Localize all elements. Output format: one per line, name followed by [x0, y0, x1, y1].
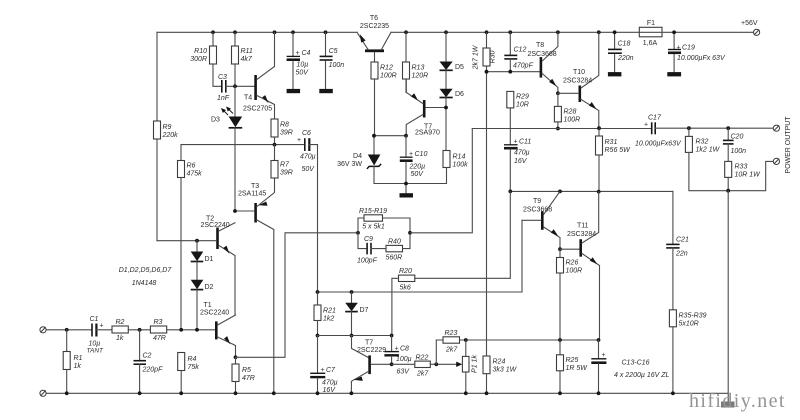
wire D4-C10 node row	[372, 134, 408, 138]
svg-text:C18: C18	[618, 41, 631, 48]
svg-text:C9: C9	[364, 236, 373, 243]
resistor R31	[596, 128, 632, 191]
ground for C10	[400, 193, 414, 197]
svg-text:C21: C21	[676, 237, 689, 244]
svg-text:1,6A: 1,6A	[643, 40, 658, 47]
svg-text:R40: R40	[388, 239, 401, 246]
svg-text:T6: T6	[370, 15, 378, 22]
svg-text:D6: D6	[455, 91, 464, 98]
svg-text:C13-C16: C13-C16	[622, 360, 650, 367]
svg-text:10R 1W: 10R 1W	[735, 172, 762, 179]
svg-text:R20: R20	[399, 268, 412, 275]
wire output node row	[472, 126, 651, 130]
resistor network R15-R19	[356, 208, 410, 235]
svg-text:+: +	[321, 367, 325, 374]
svg-text:75k: 75k	[188, 364, 200, 371]
svg-text:5x10R: 5x10R	[679, 321, 699, 328]
capacitor C21	[666, 191, 689, 309]
capacitor C19	[668, 32, 726, 72]
svg-text:R31: R31	[605, 139, 618, 146]
svg-text:47R: 47R	[242, 375, 255, 382]
svg-text:120R: 120R	[412, 73, 429, 80]
svg-text:220k: 220k	[162, 132, 179, 139]
svg-text:63V: 63V	[397, 369, 411, 376]
svg-text:R1: R1	[74, 355, 83, 362]
capacitor C3	[217, 74, 235, 102]
transistor T1 2SC2240	[200, 302, 236, 357]
svg-text:2SC3284: 2SC3284	[567, 231, 596, 238]
svg-text:100R: 100R	[380, 73, 397, 80]
svg-text:R11: R11	[241, 48, 253, 55]
svg-text:R56 5W: R56 5W	[605, 147, 632, 154]
svg-text:36V 3W: 36V 3W	[337, 161, 362, 168]
capacitor C6	[297, 130, 318, 292]
svg-text:C7: C7	[326, 367, 336, 374]
resistor R1	[63, 328, 82, 395]
svg-text:470pF: 470pF	[513, 63, 534, 70]
svg-text:22n: 22n	[675, 251, 688, 258]
transistor T4 2SC2705	[243, 32, 275, 119]
svg-text:100R: 100R	[566, 268, 583, 275]
svg-text:P1 1k: P1 1k	[472, 355, 479, 373]
svg-text:R32: R32	[696, 139, 709, 146]
svg-text:470µ: 470µ	[322, 380, 338, 387]
junction dot T3 collector at rail	[272, 391, 276, 395]
LED D3	[211, 86, 242, 211]
svg-text:+: +	[409, 151, 413, 158]
svg-text:100pF: 100pF	[357, 258, 378, 265]
resistor R30	[473, 32, 497, 71]
wire feedback from T1 emitter	[236, 233, 359, 357]
transistor T7 2SA970	[406, 79, 446, 137]
svg-text:100R: 100R	[564, 117, 581, 124]
svg-text:220pF: 220pF	[142, 367, 164, 374]
svg-text:+56V: +56V	[741, 20, 758, 27]
svg-text:2k7: 2k7	[445, 347, 458, 354]
svg-text:2SC2229: 2SC2229	[357, 347, 386, 354]
svg-text:R14: R14	[453, 154, 466, 161]
zener diode D4	[337, 136, 406, 184]
svg-text:T7: T7	[365, 340, 373, 347]
wire T4 base	[233, 84, 254, 88]
svg-text:39R: 39R	[280, 130, 293, 137]
svg-text:C17: C17	[648, 115, 662, 122]
svg-text:3k3 1W: 3k3 1W	[493, 367, 518, 374]
transistor T8 2SC3668	[528, 32, 558, 93]
capacitor C11	[504, 139, 531, 192]
capacitor C7	[310, 336, 338, 396]
svg-text:2SC2235: 2SC2235	[360, 23, 389, 30]
resistor R24	[483, 356, 518, 395]
svg-text:10.000µFx 63V: 10.000µFx 63V	[677, 55, 726, 62]
svg-text:100n: 100n	[731, 148, 747, 155]
wire feedback to output node	[410, 129, 472, 233]
svg-text:16V: 16V	[323, 387, 337, 394]
svg-text:T8: T8	[536, 42, 544, 49]
svg-text:475k: 475k	[187, 171, 203, 178]
svg-text:470µ: 470µ	[514, 150, 530, 157]
svg-text:4 x 2200µ 16V ZL: 4 x 2200µ 16V ZL	[614, 372, 670, 379]
resistor R21	[314, 290, 336, 337]
svg-text:50V: 50V	[302, 166, 316, 173]
capacitor C1	[87, 316, 113, 355]
terminal output hot	[773, 125, 779, 131]
svg-text:R8: R8	[280, 122, 289, 129]
resistor R13	[403, 32, 429, 92]
diode D7	[345, 290, 368, 337]
capacitor C4	[287, 32, 311, 89]
svg-text:300R: 300R	[190, 56, 207, 63]
svg-text:560R: 560R	[386, 255, 403, 262]
ground for C19	[667, 72, 681, 76]
svg-text:+: +	[296, 50, 300, 57]
svg-text:2SC3284: 2SC3284	[563, 78, 592, 85]
svg-text:R2: R2	[116, 319, 125, 326]
svg-text:R13: R13	[412, 65, 425, 72]
transistor T11 2SC3284	[558, 192, 599, 340]
terminal +56V	[741, 20, 760, 35]
svg-text:1nF: 1nF	[217, 95, 230, 102]
svg-text:R25: R25	[566, 357, 579, 364]
svg-text:2k7 1W: 2k7 1W	[473, 44, 480, 70]
watermark hifidiy.net	[689, 390, 786, 412]
resistor R10	[190, 32, 221, 86]
resistor R26	[557, 249, 583, 340]
ground for C4	[287, 89, 301, 93]
capacitor C17	[635, 115, 773, 148]
svg-text:C8: C8	[400, 346, 409, 353]
svg-text:C19: C19	[682, 45, 695, 52]
svg-text:C3: C3	[218, 74, 227, 81]
resistor R6	[178, 145, 203, 330]
potentiometer P1	[456, 340, 478, 395]
resistor R35-R39	[669, 310, 706, 395]
svg-text:1R 5W: 1R 5W	[566, 365, 589, 372]
svg-text:R33: R33	[735, 164, 748, 171]
svg-text:D7: D7	[360, 307, 369, 314]
label POWER OUTPUT	[785, 116, 792, 174]
svg-text:R23: R23	[445, 330, 458, 337]
svg-text:R21: R21	[323, 308, 336, 315]
svg-text:47R: 47R	[153, 335, 166, 342]
junction dot D2 column base row	[195, 328, 199, 332]
svg-text:100n: 100n	[329, 62, 345, 69]
capacitor C10	[400, 136, 428, 194]
svg-text:2k7: 2k7	[416, 371, 429, 378]
svg-text:10µ: 10µ	[89, 341, 101, 348]
svg-text:+: +	[602, 352, 606, 359]
svg-text:R3: R3	[154, 319, 163, 326]
svg-text:+: +	[395, 346, 399, 353]
resistor R2	[112, 319, 150, 342]
svg-text:D5: D5	[455, 64, 464, 71]
svg-text:5 x 5k1: 5 x 5k1	[362, 224, 385, 231]
resistor R25	[557, 340, 589, 395]
svg-text:2SC3668: 2SC3668	[523, 207, 552, 214]
capacitor C8	[384, 334, 411, 376]
wire bottom rail	[46, 392, 728, 394]
svg-text:C10: C10	[415, 151, 428, 158]
svg-text:5k6: 5k6	[400, 285, 411, 292]
resistor R8	[271, 119, 293, 145]
svg-text:C11: C11	[519, 139, 531, 146]
resistor R40	[386, 231, 412, 262]
svg-text:+: +	[297, 137, 301, 144]
terminal output return	[773, 158, 779, 164]
svg-text:10µ: 10µ	[297, 62, 309, 69]
transistor T10 2SC3284	[558, 32, 599, 128]
svg-text:16V: 16V	[514, 158, 528, 165]
svg-text:C20: C20	[731, 134, 744, 141]
svg-text:100µ: 100µ	[396, 356, 412, 363]
resistor R11	[232, 32, 253, 86]
capacitor C2	[134, 328, 164, 395]
svg-text:50V: 50V	[296, 70, 310, 77]
transistor T3 2SA1145	[233, 178, 274, 394]
svg-text:R22: R22	[416, 355, 429, 362]
transistor T7 2SC2229	[350, 336, 392, 396]
svg-text:T10: T10	[573, 69, 585, 76]
wire top rail left segment	[157, 31, 357, 33]
svg-text:+: +	[677, 45, 681, 52]
diode D1	[191, 239, 214, 263]
svg-text:C5: C5	[329, 48, 338, 55]
resistor R3	[150, 319, 215, 342]
terminal ground	[40, 390, 46, 396]
svg-text:TANT: TANT	[87, 348, 105, 355]
resistor R33	[725, 161, 761, 192]
svg-text:4k7: 4k7	[241, 56, 253, 63]
svg-text:1k2: 1k2	[323, 316, 334, 323]
capacitor C9	[357, 233, 386, 265]
svg-text:D2: D2	[205, 284, 214, 291]
svg-text:39R: 39R	[280, 170, 293, 177]
svg-text:POWER OUTPUT: POWER OUTPUT	[785, 116, 792, 174]
resistor R9	[154, 32, 179, 240]
resistor R22	[392, 355, 460, 378]
svg-text:R12: R12	[380, 65, 393, 72]
ground for C18	[608, 72, 622, 76]
svg-text:F1: F1	[647, 20, 655, 27]
svg-text:C12: C12	[514, 47, 527, 54]
svg-text:220µ: 220µ	[409, 164, 426, 171]
svg-text:1k: 1k	[74, 363, 82, 370]
wire R30 column down to R24	[486, 72, 488, 356]
wire R6-C6 row	[181, 143, 304, 147]
wire R33 column to bottom rail	[727, 191, 729, 403]
label D1,D2,D5,D6,D7 1N4148	[119, 267, 173, 287]
resistor R20	[392, 268, 415, 336]
svg-text:2SA970: 2SA970	[415, 130, 440, 137]
svg-text:C1: C1	[90, 316, 99, 323]
svg-text:T3: T3	[251, 183, 259, 190]
svg-text:R4: R4	[188, 356, 197, 363]
svg-text:T4: T4	[244, 95, 252, 102]
junction dots on top rail	[211, 30, 676, 34]
svg-text:C6: C6	[302, 130, 311, 137]
svg-text:220n: 220n	[617, 55, 634, 62]
diode D6	[440, 70, 465, 107]
svg-text:T9: T9	[533, 198, 541, 205]
capacitor C5	[320, 32, 345, 89]
resistor R7	[271, 145, 293, 178]
svg-text:R10: R10	[194, 48, 207, 55]
svg-text:D3: D3	[211, 117, 220, 124]
svg-text:C4: C4	[302, 50, 311, 57]
svg-text:R9: R9	[163, 124, 172, 131]
svg-text:R35-R39: R35-R39	[679, 313, 707, 320]
svg-text:2SC2240: 2SC2240	[201, 222, 230, 229]
diode D2	[191, 262, 214, 330]
resistor R32	[685, 126, 773, 190]
resistor R4	[178, 328, 200, 395]
capacitor C12	[504, 32, 533, 71]
svg-text:+: +	[100, 323, 104, 330]
svg-text:R24: R24	[493, 359, 506, 366]
svg-text:R28: R28	[564, 109, 577, 116]
svg-text:10R: 10R	[516, 102, 529, 109]
svg-text:R7: R7	[280, 162, 290, 169]
transistor T2 2SC2240	[201, 216, 236, 315]
svg-text:R5: R5	[242, 367, 251, 374]
svg-text:10.000µFx63V: 10.000µFx63V	[635, 141, 682, 148]
svg-text:hifidiy.net: hifidiy.net	[689, 390, 786, 412]
svg-text:2SC3668: 2SC3668	[528, 51, 557, 58]
wire T8 base row	[485, 70, 540, 74]
svg-text:D4: D4	[353, 153, 362, 160]
transistor T9 2SC3668	[522, 191, 560, 249]
wire T2 base row	[157, 240, 216, 242]
transistor T6 2SC2235	[357, 15, 391, 62]
resistor R29	[507, 91, 529, 144]
resistor R14	[406, 106, 468, 184]
svg-text:D1,D2,D5,D6,D7: D1,D2,D5,D6,D7	[119, 267, 173, 274]
svg-text:R15-R19: R15-R19	[359, 208, 387, 215]
svg-text:T1: T1	[204, 302, 212, 309]
capacitor C18	[608, 32, 634, 72]
svg-text:50V: 50V	[411, 171, 425, 178]
terminal input	[40, 327, 92, 333]
fuse F1	[639, 20, 662, 47]
wire T9 base column	[318, 220, 523, 292]
svg-text:100k: 100k	[453, 162, 469, 169]
svg-text:R29: R29	[516, 94, 529, 101]
resistor R12	[371, 62, 397, 136]
svg-text:R26: R26	[566, 260, 579, 267]
svg-text:2SC2705: 2SC2705	[243, 106, 272, 113]
diode D5	[440, 32, 465, 71]
capacitor C13-C16	[591, 340, 669, 395]
svg-text:2SA1145: 2SA1145	[238, 191, 266, 198]
svg-text:2SC2240: 2SC2240	[200, 310, 229, 317]
capacitor C20	[723, 126, 746, 161]
resistor R28	[554, 91, 580, 130]
svg-text:470µ: 470µ	[300, 154, 316, 161]
svg-text:R30: R30	[490, 50, 497, 63]
svg-text:1k: 1k	[116, 335, 124, 342]
wire driver collector node row	[508, 190, 673, 194]
svg-text:+: +	[644, 122, 648, 129]
svg-text:T11: T11	[577, 223, 589, 230]
resistor R5	[232, 355, 255, 395]
wire bias spreader row	[318, 335, 392, 337]
svg-text:C2: C2	[143, 353, 152, 360]
wire R20 tap column	[415, 191, 511, 278]
svg-text:R6: R6	[187, 163, 196, 170]
svg-text:D1: D1	[205, 256, 214, 263]
ground for C5	[319, 89, 333, 93]
svg-text:+: +	[514, 139, 518, 146]
svg-text:1N4148: 1N4148	[132, 280, 157, 287]
svg-text:1k2 1W: 1k2 1W	[696, 147, 721, 154]
wire top rail right segment	[391, 31, 753, 33]
resistor R23	[436, 330, 459, 364]
wire bias row to output devices	[436, 338, 600, 342]
